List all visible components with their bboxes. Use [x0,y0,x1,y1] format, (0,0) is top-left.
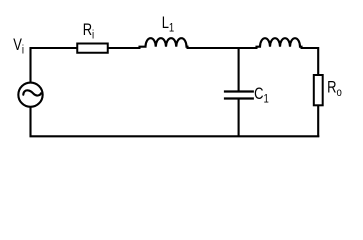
inductor L2 [257,38,302,48]
capacitor C1 top plate [224,90,254,92]
svg-text:L1: L1 [162,15,175,35]
resistor Ri (box) [77,44,108,53]
wire: left vertical from source bottom to bottom rail [29,107,31,137]
source sine symbol [23,90,41,95]
inductor L1 [140,38,188,48]
wire: L2 to top-right corner and down to Ro [301,48,319,76]
wire: L1 to node A [187,47,240,49]
wire: node A to L2 lead [239,47,258,49]
svg-text:Ro: Ro [327,79,342,99]
wire: C1 bottom plate to bottom rail [238,99,240,138]
wire: top-left horizontal from source node to Ri [31,47,78,49]
wire: Ri to L1 lead [108,47,141,49]
wire: bottom rail [30,135,320,137]
svg-text:C1: C1 [254,86,269,106]
wire: Ro bottom to bottom rail [317,105,319,137]
resistor Ro (box) [314,75,323,105]
source V1 circle [18,83,42,107]
capacitor C1 bottom plate [224,97,254,99]
svg-text:Ri: Ri [83,22,94,42]
node A vertical wire down to C1 top plate [238,47,240,91]
svg-text:Vi: Vi [13,37,24,57]
wire: left vertical from top node down to source top [29,47,31,83]
